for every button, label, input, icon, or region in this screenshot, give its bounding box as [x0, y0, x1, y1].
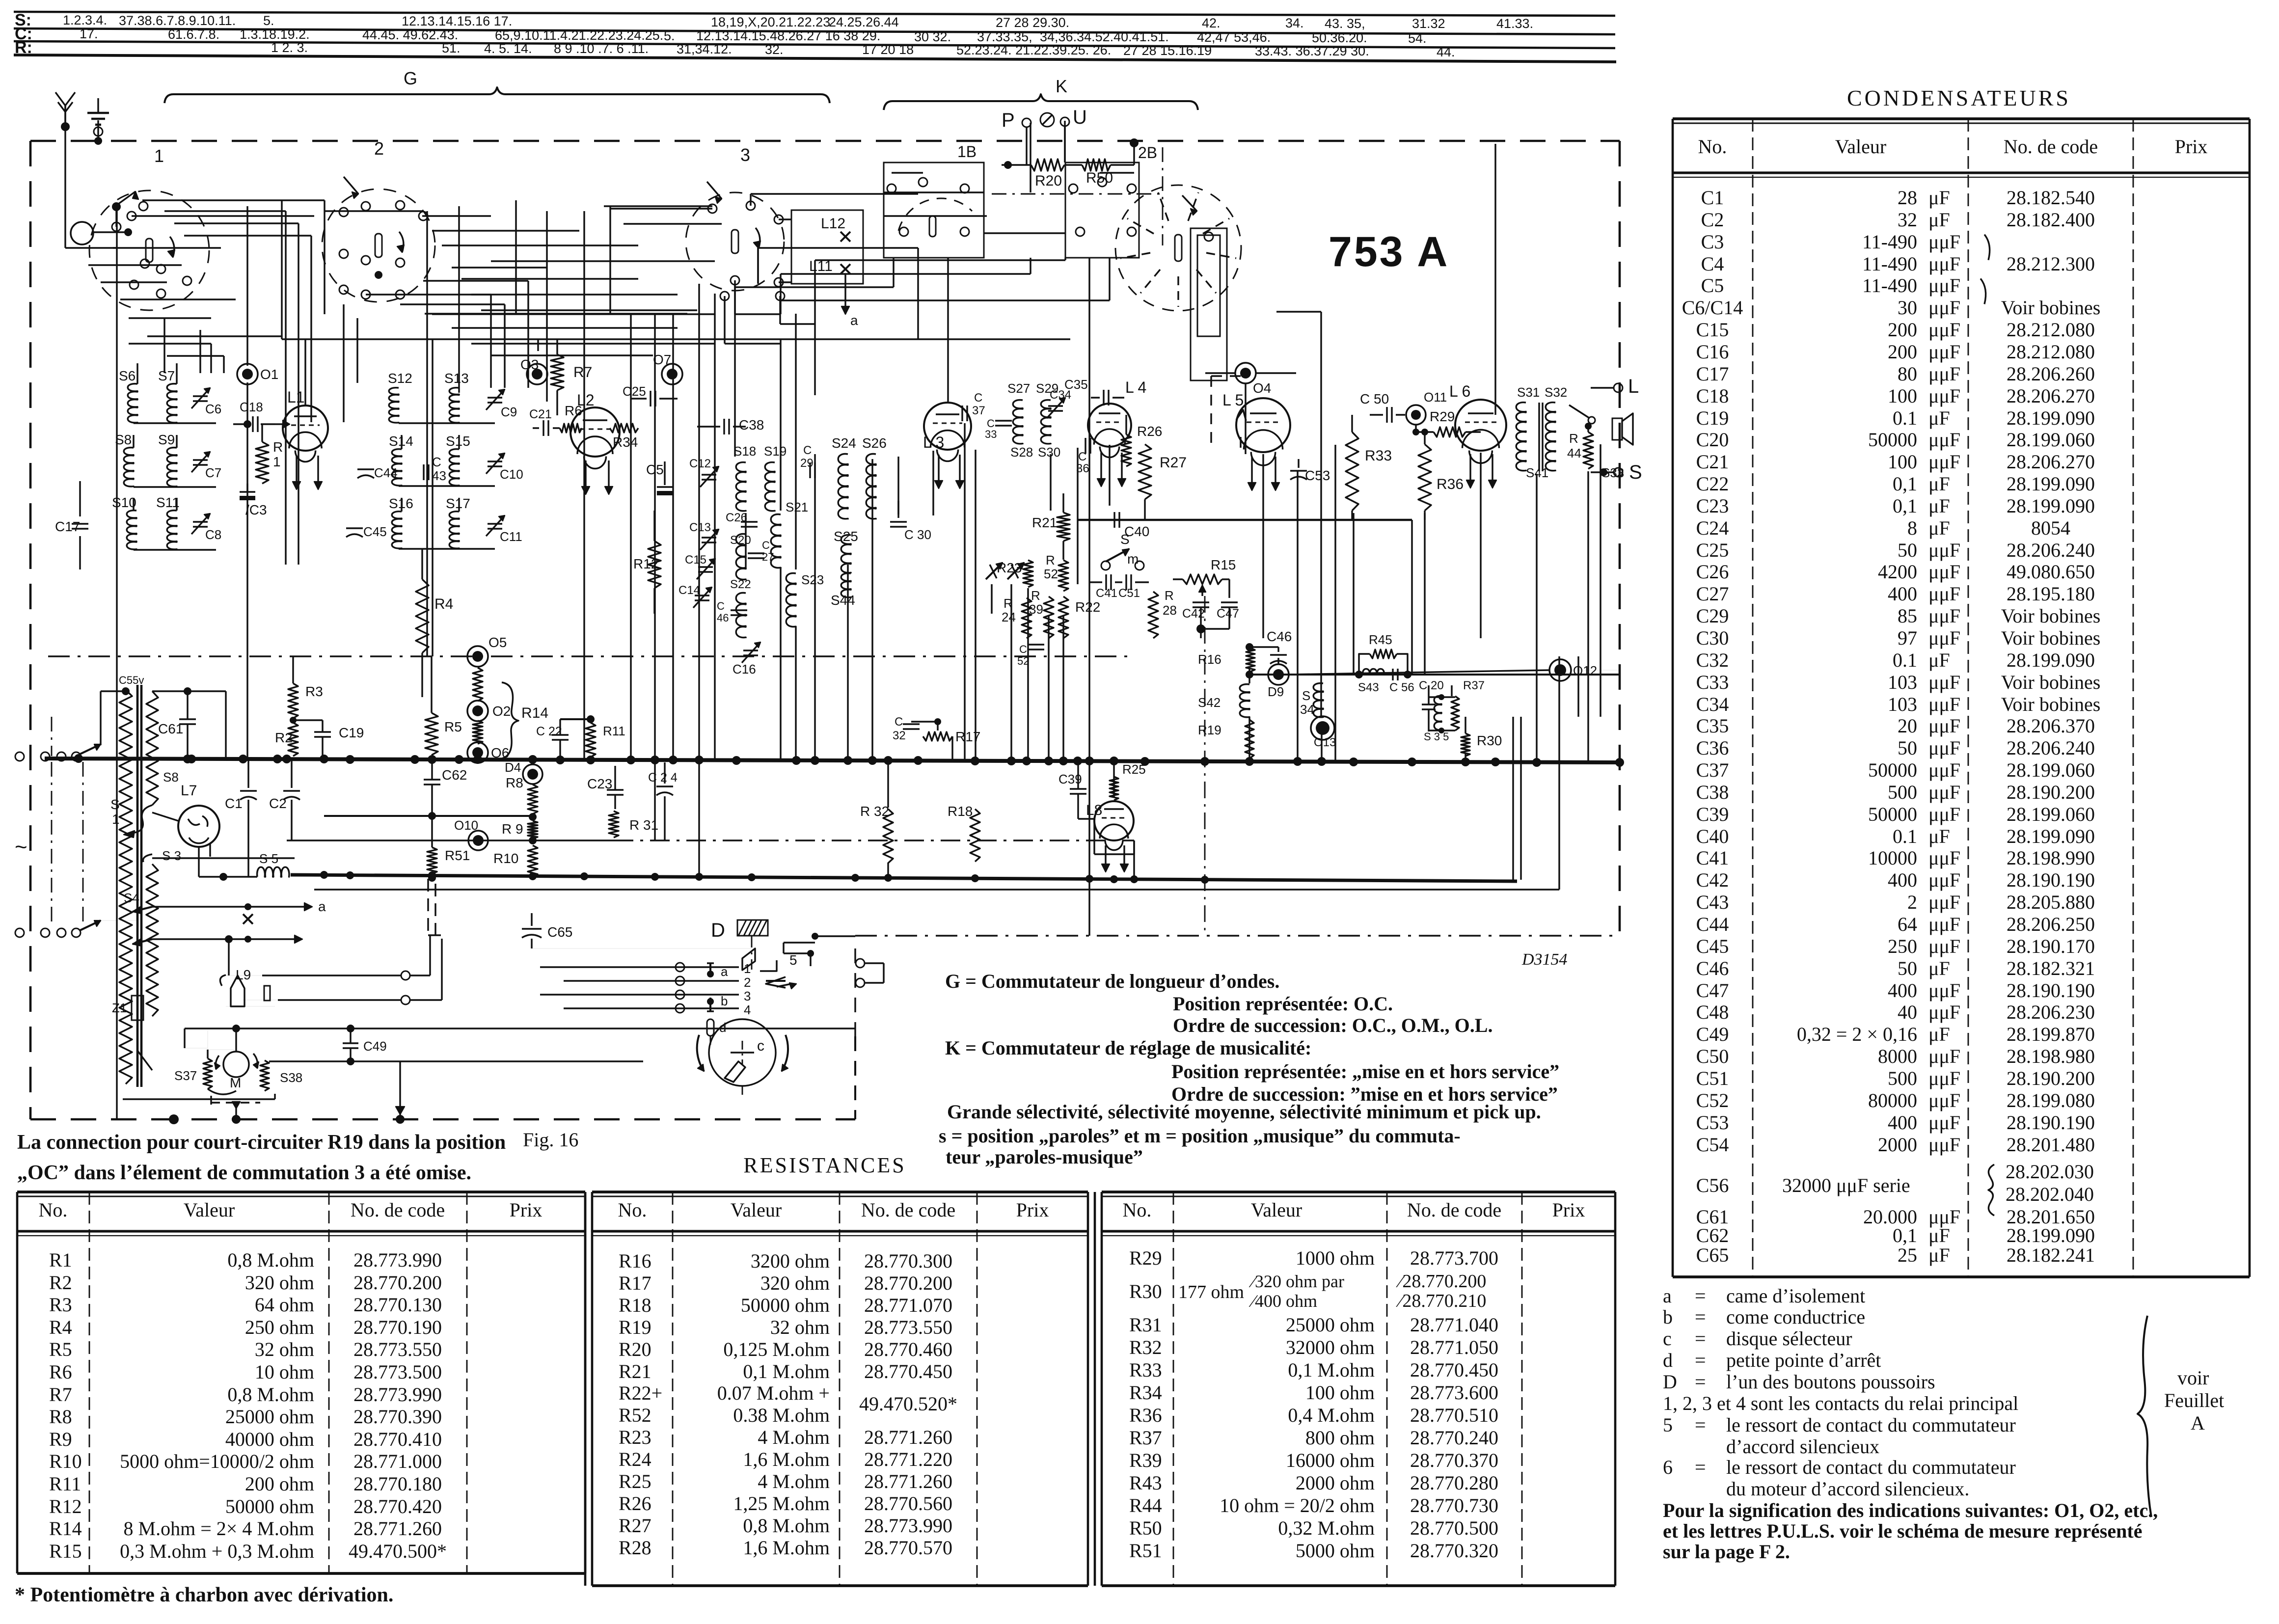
svg-text:250: 250	[1888, 935, 1917, 957]
svg-text:R20: R20	[619, 1338, 651, 1360]
resistor S38	[260, 1060, 269, 1091]
capacitor C16	[743, 650, 758, 651]
svg-text:R2: R2	[49, 1272, 72, 1294]
svg-text:5.: 5.	[664, 28, 675, 43]
svg-text:28.770.320: 28.770.320	[1410, 1540, 1498, 1562]
svg-text:85: 85	[1898, 605, 1917, 627]
resistor R4	[416, 579, 429, 653]
svg-text:Valeur: Valeur	[1835, 135, 1886, 158]
svg-text:R: R	[273, 439, 283, 455]
svg-text:C47: C47	[1217, 607, 1239, 621]
IF coil S24	[838, 454, 848, 520]
svg-text:0,4 M.ohm: 0,4 M.ohm	[1288, 1404, 1375, 1426]
svg-text:R16: R16	[1198, 652, 1221, 667]
svg-text:33.43. 36.37.29 30.: 33.43. 36.37.29 30.	[1255, 44, 1369, 58]
svg-text:R34: R34	[1129, 1381, 1162, 1404]
capacitor C40	[1113, 512, 1115, 528]
svg-text:28.770.370: 28.770.370	[1410, 1449, 1498, 1471]
svg-text:μμF: μμF	[1928, 869, 1960, 891]
svg-text:28.206.240: 28.206.240	[2007, 539, 2095, 561]
svg-text:⁄320 ohm par: ⁄320 ohm par	[1248, 1272, 1344, 1291]
svg-text:C6/C14: C6/C14	[1682, 297, 1743, 319]
resistor R37	[1451, 696, 1459, 731]
svg-text:29: 29	[800, 457, 814, 470]
svg-text:28.212.080: 28.212.080	[2007, 319, 2095, 341]
secondary winding S4	[146, 864, 158, 1016]
svg-text:50: 50	[1898, 539, 1917, 561]
svg-text:No. de code: No. de code	[861, 1199, 955, 1221]
dashed box near L5	[1210, 376, 1212, 449]
svg-text:C5: C5	[646, 462, 664, 477]
svg-text:μμF: μμF	[1928, 979, 1960, 1001]
svg-text:0,8 M.ohm: 0,8 M.ohm	[227, 1249, 314, 1271]
trimmer C10	[488, 460, 502, 462]
svg-text:μμF: μμF	[1928, 429, 1960, 451]
svg-text:C34: C34	[1050, 388, 1071, 402]
svg-text:177 ohm: 177 ohm	[1178, 1282, 1244, 1302]
svg-text:D: D	[1663, 1371, 1677, 1393]
svg-text:R29: R29	[1129, 1247, 1162, 1269]
svg-text:C 20: C 20	[1419, 679, 1444, 692]
svg-text:50000 ohm: 50000 ohm	[741, 1294, 830, 1316]
svg-text:11-490: 11-490	[1862, 231, 1917, 253]
svg-text:R: R	[1046, 553, 1055, 568]
svg-text:C36: C36	[1696, 737, 1729, 759]
svg-text:28.770.420: 28.770.420	[353, 1495, 442, 1517]
svg-text:teur „paroles-musique”: teur „paroles-musique”	[946, 1146, 1143, 1168]
svg-text:103: 103	[1888, 693, 1917, 715]
svg-text:100 ohm: 100 ohm	[1305, 1381, 1375, 1404]
wire verticals left section	[64, 106, 66, 141]
svg-text:C46: C46	[1696, 957, 1729, 979]
wire y2162	[269, 1060, 643, 1062]
antenna coil S7	[167, 384, 177, 423]
resistor R12	[648, 541, 661, 588]
svg-text:1.2.3.4.: 1.2.3.4.	[63, 13, 107, 27]
svg-text:S38: S38	[280, 1070, 302, 1085]
trimmer C11	[488, 523, 502, 524]
tube L2 (IF amp)	[570, 407, 620, 457]
svg-text:1,25 M.ohm: 1,25 M.ohm	[733, 1492, 830, 1515]
svg-text:R4: R4	[49, 1316, 72, 1338]
svg-text:L11: L11	[809, 258, 833, 274]
svg-text:R19: R19	[619, 1316, 651, 1338]
svg-text:C47: C47	[1696, 979, 1729, 1001]
IF coil S42	[1240, 684, 1249, 718]
tube L3 (detector)	[924, 403, 971, 450]
svg-text:320 ohm: 320 ohm	[245, 1272, 314, 1294]
svg-text:C34: C34	[1696, 693, 1729, 715]
svg-text:S21: S21	[786, 500, 808, 514]
svg-text:R36: R36	[1129, 1404, 1162, 1426]
svg-text:28.771.220: 28.771.220	[864, 1448, 952, 1470]
svg-text:Position représentée: O.C.: Position représentée: O.C.	[1173, 993, 1393, 1015]
capacitor C26	[741, 521, 758, 522]
svg-text:C15: C15	[1696, 319, 1729, 341]
svg-text:S17: S17	[446, 496, 470, 511]
svg-text:L 3: L 3	[923, 433, 944, 451]
switch lever near L terminal	[1569, 405, 1590, 418]
svg-text:8000: 8000	[1878, 1045, 1917, 1067]
svg-text:μμF: μμF	[1928, 759, 1960, 781]
dash-dot from R15 down	[1204, 596, 1206, 933]
svg-text:R31: R31	[1129, 1314, 1162, 1336]
tube L6 (output pentode)	[1455, 400, 1506, 451]
capacitor C22	[552, 734, 569, 735]
svg-text:43: 43	[432, 468, 446, 483]
svg-text:R2: R2	[275, 730, 293, 745]
tube L7 (rectifier)	[178, 806, 219, 847]
svg-text:C30: C30	[1696, 627, 1729, 649]
svg-text:28.190.190: 28.190.190	[2007, 979, 2095, 1001]
svg-text:d: d	[1663, 1349, 1673, 1371]
svg-text:6: 6	[1663, 1456, 1673, 1478]
svg-text:μμF: μμF	[1928, 1001, 1960, 1023]
resistor S37	[203, 1058, 212, 1089]
svg-text:C29: C29	[1696, 605, 1729, 627]
resistor R33	[1346, 432, 1358, 511]
svg-text:R8: R8	[506, 775, 523, 790]
svg-text:S: S	[1629, 461, 1642, 483]
svg-text:μμF: μμF	[1928, 781, 1960, 803]
svg-text:61.6.7.8.: 61.6.7.8.	[168, 27, 219, 42]
svg-text:320 ohm: 320 ohm	[760, 1272, 830, 1294]
trimmer C12	[702, 474, 716, 475]
svg-text:C38: C38	[1696, 781, 1729, 803]
terminal O1	[237, 364, 258, 384]
svg-text:1.3.18.19.2.: 1.3.18.19.2.	[240, 27, 310, 42]
svg-text:S: S	[110, 797, 120, 812]
svg-text:33: 33	[985, 428, 997, 440]
svg-text:μF: μF	[1928, 1244, 1950, 1266]
resistor R31	[609, 811, 619, 838]
svg-text:C3: C3	[1701, 231, 1724, 253]
svg-text:S31: S31	[1517, 385, 1540, 400]
svg-text:C1: C1	[1701, 187, 1724, 209]
svg-text:20: 20	[1898, 715, 1917, 737]
junction arrow bottom border	[399, 1061, 401, 1119]
svg-text:C26: C26	[1696, 561, 1729, 583]
svg-text:1B: 1B	[957, 143, 977, 161]
resistor R10	[528, 845, 538, 877]
svg-text:C20: C20	[1696, 429, 1729, 451]
brace G (commutateur longueur d ondes)	[164, 87, 830, 103]
svg-text:μF: μF	[1928, 473, 1950, 495]
svg-text:12.13.14.15.48.26.27 16 38 29.: 12.13.14.15.48.26.27 16 38 29.	[696, 28, 880, 43]
horizontal y635 to corner x2691	[1276, 311, 1321, 312]
svg-text:39: 39	[1029, 602, 1043, 617]
svg-text:c: c	[1663, 1327, 1672, 1350]
svg-text:C52: C52	[1696, 1089, 1729, 1111]
capacitor C35	[1103, 390, 1104, 406]
svg-text:L1: L1	[287, 388, 305, 406]
wires around rectifier	[152, 812, 178, 821]
tuning dial disc (2B rotor)	[1115, 185, 1241, 311]
IF coil S27	[1013, 400, 1023, 444]
svg-text:28.182.400: 28.182.400	[2007, 209, 2095, 231]
svg-text:R6: R6	[49, 1361, 72, 1383]
svg-text:28.773.550: 28.773.550	[864, 1316, 952, 1338]
capacitor C24	[656, 785, 673, 787]
svg-text:31,34.12.: 31,34.12.	[677, 42, 732, 56]
svg-text:42.: 42.	[1202, 16, 1221, 30]
svg-text:100: 100	[1888, 385, 1917, 407]
svg-text:37.33.35,: 37.33.35,	[977, 29, 1032, 44]
wire verticals right of discs	[734, 284, 735, 457]
svg-text:C41: C41	[1096, 587, 1117, 600]
schematic dashed border top	[30, 140, 1620, 142]
svg-text:S24: S24	[832, 435, 856, 451]
mains switch contacts bottom row	[41, 928, 50, 937]
capacitor C19	[314, 731, 331, 732]
dash-dot line y1337 through O5	[48, 655, 1134, 657]
svg-text:C17: C17	[55, 519, 80, 534]
svg-text:753 A: 753 A	[1329, 228, 1449, 275]
resistor R45	[1370, 650, 1397, 658]
svg-text:R17: R17	[619, 1272, 651, 1294]
svg-text:80000: 80000	[1868, 1089, 1917, 1111]
resistor R19	[1245, 720, 1254, 758]
svg-text:C44: C44	[1696, 913, 1729, 935]
dash-dot mains links	[51, 762, 53, 927]
resistor R24	[1022, 598, 1031, 638]
svg-text:1: 1	[744, 961, 751, 976]
svg-text:R44: R44	[1129, 1494, 1162, 1516]
svg-text:G = Commutateur de longueu: G = Commutateur de longueur d’ondes.	[945, 970, 1279, 992]
svg-text:R:: R:	[15, 38, 32, 57]
svg-text:C51: C51	[1696, 1067, 1729, 1089]
svg-text:Position représentée: „mise en: Position représentée: „mise en et hors s…	[1171, 1060, 1559, 1083]
svg-text:C62: C62	[1696, 1224, 1729, 1246]
svg-text:8 M.ohm = 2× 4 M.ohm: 8 M.ohm = 2× 4 M.ohm	[124, 1517, 314, 1540]
resistor R3	[288, 683, 298, 718]
schematic dashed border left	[29, 141, 32, 1119]
svg-text:Pour la signification des indi: Pour la signification des indications su…	[1663, 1499, 2158, 1521]
svg-text:46: 46	[717, 612, 729, 624]
resistor R9	[528, 821, 538, 839]
svg-text:R7: R7	[573, 364, 592, 380]
svg-text:R36: R36	[1437, 476, 1464, 492]
svg-text:S8: S8	[115, 432, 132, 447]
svg-text:S6: S6	[119, 368, 136, 383]
svg-text:C53: C53	[1305, 468, 1330, 483]
svg-text:=: =	[1695, 1414, 1706, 1436]
svg-text:28.771.050: 28.771.050	[1410, 1336, 1498, 1358]
svg-text:28.770.500: 28.770.500	[1410, 1517, 1498, 1539]
capacitor C39	[1070, 788, 1086, 789]
svg-text:2: 2	[1907, 891, 1917, 913]
wires from coils up	[133, 435, 134, 448]
svg-text:S19: S19	[764, 444, 787, 459]
svg-text:D9: D9	[1268, 684, 1284, 699]
trimmer C8	[193, 521, 208, 522]
svg-text:R21: R21	[619, 1360, 651, 1382]
svg-text:50000 ohm: 50000 ohm	[225, 1495, 314, 1517]
svg-text:μμF: μμF	[1928, 671, 1960, 693]
svg-text:25: 25	[1898, 1244, 1917, 1266]
svg-text:/C3: /C3	[245, 502, 267, 517]
svg-text:a: a	[850, 313, 858, 328]
IF coil S20	[736, 534, 746, 580]
svg-text:28.206.270: 28.206.270	[2007, 451, 2095, 473]
capacitor C5 (gang)	[657, 486, 673, 487]
svg-text:28.190.200: 28.190.200	[2007, 1067, 2095, 1089]
svg-text:3200 ohm: 3200 ohm	[751, 1250, 830, 1272]
svg-text:C49: C49	[1696, 1023, 1729, 1045]
svg-text:28.771.040: 28.771.040	[1410, 1314, 1498, 1336]
svg-text:3: 3	[740, 145, 750, 165]
svg-text:28.199.090: 28.199.090	[2007, 649, 2095, 671]
svg-text:R34: R34	[613, 434, 638, 450]
svg-text:R27: R27	[1160, 455, 1187, 471]
svg-text:S32: S32	[1545, 385, 1567, 400]
IF coil S25	[841, 535, 851, 573]
svg-text:S 5: S 5	[259, 851, 278, 866]
svg-text:R14: R14	[521, 705, 548, 721]
svg-text:400: 400	[1888, 979, 1917, 1001]
svg-text:C: C	[762, 539, 770, 551]
resistor R6	[560, 424, 582, 433]
svg-text:S28: S28	[1010, 445, 1033, 460]
svg-text:C37: C37	[1696, 759, 1729, 781]
svg-text:R19: R19	[1198, 723, 1221, 737]
capacitor C1	[240, 790, 257, 791]
svg-text:49.080.650: 49.080.650	[2007, 561, 2095, 583]
svg-text:10 ohm = 20/2 ohm: 10 ohm = 20/2 ohm	[1220, 1494, 1375, 1516]
resistance table R29-R51	[1102, 1191, 1615, 1193]
resistor R18	[970, 809, 980, 862]
trimmer C13	[702, 537, 716, 538]
svg-text:28.771.260: 28.771.260	[353, 1517, 442, 1540]
svg-text:R5: R5	[49, 1338, 72, 1360]
capacitor C37	[961, 406, 963, 421]
IF coil S44	[841, 573, 851, 598]
svg-text:RESISTANCES: RESISTANCES	[743, 1153, 906, 1177]
svg-text:49.470.520*: 49.470.520*	[859, 1393, 957, 1415]
svg-text:28.770.200: 28.770.200	[864, 1272, 952, 1294]
svg-text:L2: L2	[577, 391, 595, 409]
svg-text:C32: C32	[1696, 649, 1729, 671]
svg-text:D3154: D3154	[1521, 950, 1568, 969]
svg-text:C19: C19	[1696, 407, 1729, 429]
terminal O13	[1311, 716, 1334, 740]
svg-text:R26: R26	[1137, 424, 1162, 439]
svg-text:No.: No.	[1698, 135, 1727, 158]
svg-text:0,32 M.ohm: 0,32 M.ohm	[1278, 1517, 1375, 1539]
svg-text:Prix: Prix	[1552, 1199, 1585, 1221]
svg-text:l’un des boutons poussoirs: l’un des boutons poussoirs	[1726, 1371, 1935, 1393]
coil S34	[1313, 683, 1323, 718]
capacitor C65	[522, 928, 542, 929]
capacitor C25	[650, 391, 651, 406]
osc coil S15	[449, 449, 459, 486]
svg-text:8054: 8054	[2031, 517, 2070, 539]
svg-text:64 ohm: 64 ohm	[255, 1294, 314, 1316]
svg-text:52: 52	[1044, 567, 1058, 581]
svg-text:O2: O2	[492, 704, 511, 719]
svg-text:C2: C2	[1701, 209, 1724, 231]
resistor R28	[1148, 592, 1158, 638]
svg-text:1: 1	[112, 812, 120, 827]
svg-text:Voir bobines: Voir bobines	[2001, 297, 2101, 319]
wire S4 contacts	[152, 906, 275, 907]
svg-text:32 ohm: 32 ohm	[255, 1338, 314, 1360]
resistor R1	[256, 442, 269, 484]
svg-text:C: C	[803, 444, 812, 457]
svg-text:C 56: C 56	[1389, 681, 1414, 694]
svg-text:28.199.090: 28.199.090	[2007, 407, 2095, 429]
svg-text:disque sélecteur: disque sélecteur	[1726, 1327, 1852, 1350]
svg-text:0.1: 0.1	[1893, 649, 1917, 671]
svg-text:R37: R37	[1463, 679, 1485, 692]
svg-text:O12: O12	[1573, 663, 1597, 678]
svg-text:43. 35,: 43. 35,	[1325, 16, 1365, 31]
svg-text:μμF: μμF	[1928, 935, 1960, 957]
capacitor C42	[1193, 601, 1209, 603]
svg-text:37: 37	[972, 404, 985, 417]
svg-text:μμF: μμF	[1928, 693, 1960, 715]
schematic dashed border right	[1619, 141, 1621, 936]
svg-text:=: =	[1695, 1306, 1706, 1328]
svg-text:28.773.990: 28.773.990	[864, 1515, 952, 1537]
svg-text:R10: R10	[49, 1450, 82, 1472]
trimmer C9	[488, 397, 502, 398]
svg-text:C61: C61	[158, 721, 183, 736]
svg-text:1: 1	[154, 146, 164, 166]
svg-text:μμF: μμF	[1928, 715, 1960, 737]
svg-text:C12: C12	[689, 457, 711, 470]
svg-text:C17: C17	[1696, 363, 1729, 385]
svg-text:0,32 = 2 × 0,16: 0,32 = 2 × 0,16	[1797, 1023, 1917, 1045]
svg-text:R39: R39	[1129, 1449, 1162, 1471]
trimmer C34	[1048, 405, 1063, 406]
svg-text:28: 28	[1163, 603, 1177, 618]
svg-text:Prix: Prix	[1016, 1199, 1049, 1221]
trimmer arrows IF	[986, 563, 1003, 579]
svg-text:C48: C48	[1696, 1001, 1729, 1023]
svg-text:28.182.540: 28.182.540	[2007, 187, 2095, 209]
brace R14	[500, 682, 518, 759]
svg-text:μμF: μμF	[1928, 253, 1960, 275]
svg-text:μF: μF	[1928, 649, 1950, 671]
terminal S	[1614, 468, 1623, 477]
resistor R14b	[473, 721, 483, 744]
svg-text:D: D	[711, 920, 725, 941]
svg-text:C26: C26	[726, 511, 747, 524]
svg-text:R16: R16	[619, 1250, 651, 1272]
capacitor C41	[1105, 574, 1107, 590]
svg-text:μμF: μμF	[1928, 1111, 1960, 1134]
resistor R20	[1031, 159, 1064, 171]
svg-text:S20: S20	[730, 534, 751, 547]
brace K (commutateur musicalite)	[884, 94, 1198, 110]
svg-text:C21: C21	[1696, 451, 1729, 473]
svg-text:C2: C2	[269, 796, 287, 811]
pickup jack	[220, 975, 226, 986]
trimmer C6	[193, 395, 208, 397]
resistor R22	[1058, 596, 1068, 638]
IF coil S26	[866, 454, 876, 520]
svg-text:O7: O7	[653, 352, 671, 367]
coil S35	[1434, 696, 1441, 731]
svg-text:28.770.460: 28.770.460	[864, 1338, 952, 1360]
transformer secondary S8	[146, 691, 158, 805]
svg-text:28.195.180: 28.195.180	[2007, 583, 2095, 605]
svg-text:Grande sélectivité, sélectivit: Grande sélectivité, sélectivité moyenne,…	[947, 1101, 1541, 1123]
svg-text:μF: μF	[1928, 1224, 1950, 1246]
osc coil S14	[392, 449, 402, 486]
svg-text:28.770.280: 28.770.280	[1410, 1472, 1498, 1494]
